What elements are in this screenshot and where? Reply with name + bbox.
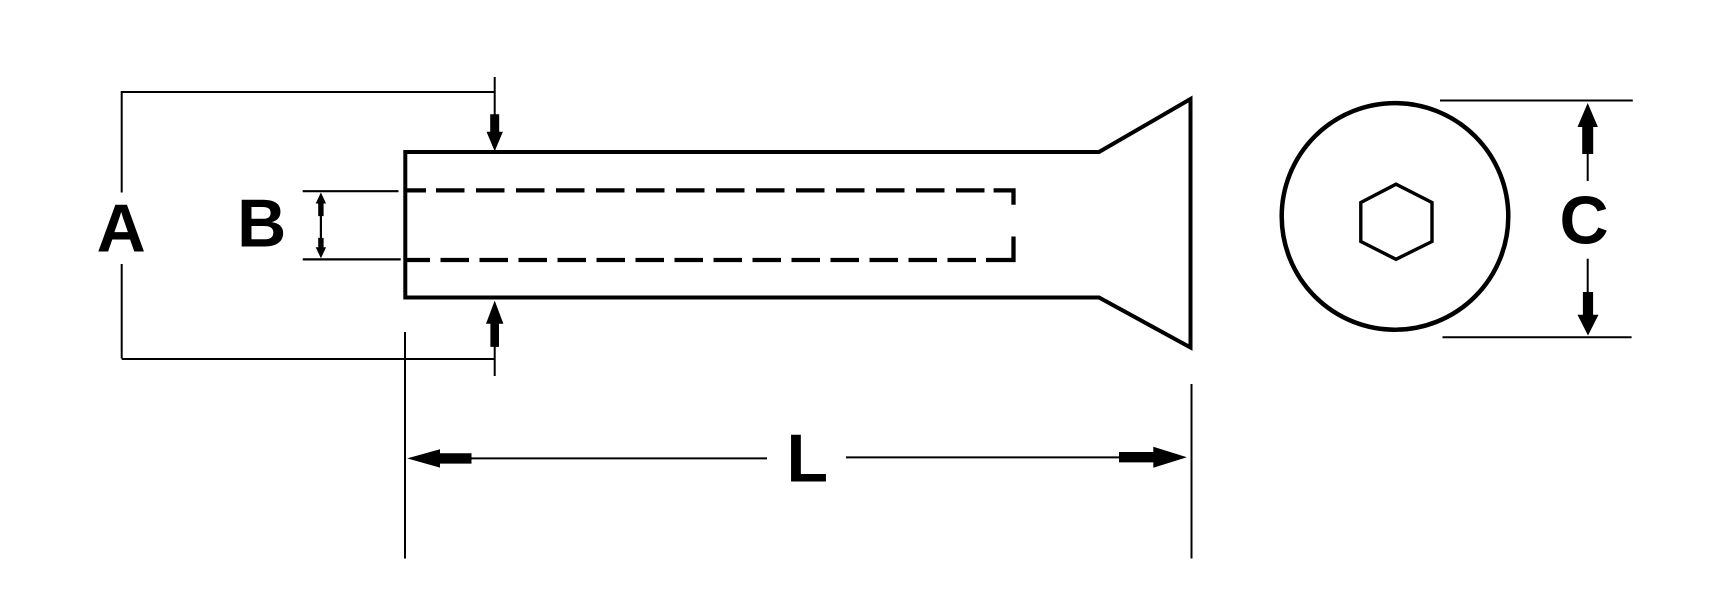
svg-text:C: C — [1559, 182, 1608, 258]
svg-text:B: B — [237, 185, 286, 261]
svg-text:A: A — [97, 191, 146, 267]
svg-text:L: L — [787, 421, 829, 497]
